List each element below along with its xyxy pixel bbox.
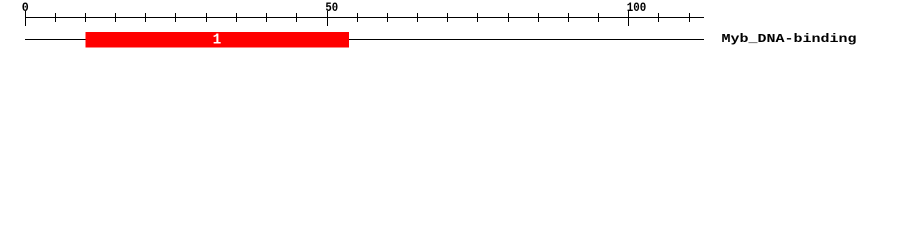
- minor tick 40: [266, 13, 267, 22]
- minor tick 70: [447, 13, 448, 22]
- minor tick 15: [115, 13, 116, 22]
- minor tick 85: [538, 13, 539, 22]
- background: [0, 0, 900, 58]
- major tick 0: [25, 11, 26, 26]
- svg-text:0: 0: [22, 1, 29, 15]
- svg-text:Myb_DNA-binding: Myb_DNA-binding: [722, 32, 857, 46]
- svg-text:100: 100: [627, 1, 647, 15]
- minor tick 10: [85, 13, 86, 22]
- minor tick 60: [387, 13, 388, 22]
- ruler axis line: [25, 17, 704, 18]
- major tick 50: [327, 11, 328, 26]
- svg-text:1: 1: [213, 33, 222, 49]
- svg-text:50: 50: [325, 1, 338, 15]
- minor tick 35: [236, 13, 237, 22]
- minor tick 20: [145, 13, 146, 22]
- minor tick 110: [689, 13, 690, 22]
- minor tick 25: [175, 13, 176, 22]
- minor tick 65: [417, 13, 418, 22]
- sequence line: [25, 39, 704, 40]
- minor tick 105: [658, 13, 659, 22]
- minor tick 95: [598, 13, 599, 22]
- minor tick 90: [568, 13, 569, 22]
- minor tick 30: [206, 13, 207, 22]
- minor tick 45: [296, 13, 297, 22]
- minor tick 80: [508, 13, 509, 22]
- minor tick 55: [357, 13, 358, 22]
- minor tick 75: [477, 13, 478, 22]
- major tick 100: [628, 11, 629, 26]
- minor tick 5: [55, 13, 56, 22]
- domain box Myb_DNA-binding: [85, 32, 349, 48]
